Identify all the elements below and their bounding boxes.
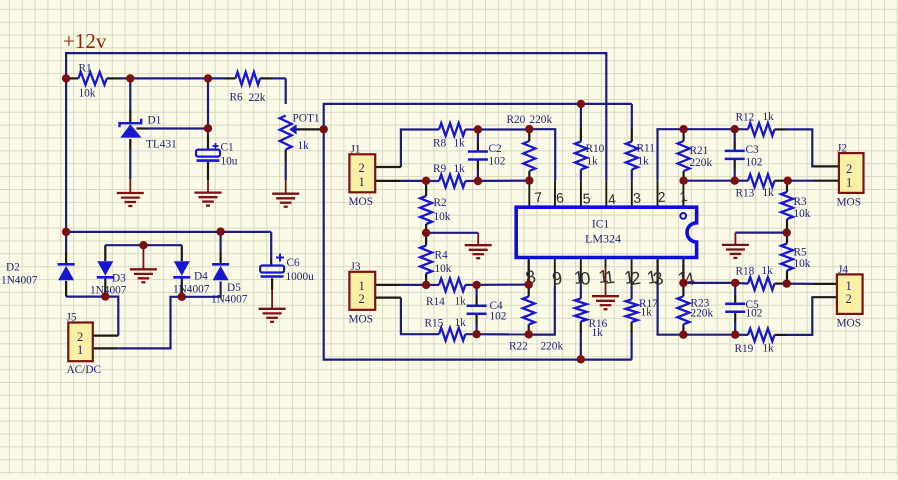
resistor R14 — [426, 279, 466, 309]
wire node B to J5 pin1 — [93, 297, 182, 349]
wire C6 to ground — [271, 278, 273, 309]
svg-text:220k: 220k — [691, 308, 714, 320]
svg-text:5: 5 — [582, 190, 591, 206]
svg-text:1k: 1k — [638, 156, 650, 168]
capacitor C1 — [196, 142, 238, 168]
wire D1 to ground — [129, 139, 131, 193]
resistor R1 — [78, 63, 106, 100]
svg-text:R3: R3 — [794, 196, 808, 208]
wire R17 branch — [630, 286, 632, 360]
wire y=335 lower right block — [683, 334, 748, 336]
svg-text:10k: 10k — [79, 88, 96, 100]
capacitor C6 — [260, 254, 314, 284]
wire R10 branch — [580, 104, 582, 180]
wire y=129 right block — [684, 128, 748, 130]
svg-text:C3: C3 — [746, 144, 760, 156]
wire R2-R4 node to ground branch — [426, 233, 478, 245]
wire pin9 down-left — [529, 286, 555, 335]
wire R5 stubs — [786, 233, 788, 284]
svg-text:10k: 10k — [435, 263, 452, 275]
wire C1 to ground — [207, 162, 209, 193]
resistor R19 — [735, 329, 775, 356]
svg-text:1k: 1k — [587, 156, 599, 168]
svg-text:220k: 220k — [541, 341, 564, 353]
svg-text:D5: D5 — [227, 282, 241, 294]
wire pin11 ground stem — [605, 267, 607, 296]
svg-text:2: 2 — [359, 292, 365, 306]
svg-text:10k: 10k — [434, 211, 451, 223]
svg-text:10k: 10k — [794, 208, 811, 220]
IC1 bottom pin numbers 8 9 10 11 12 13 14 — [524, 266, 696, 290]
wire R4 stubs — [425, 233, 427, 285]
wire R12 to J2 pin2 — [775, 129, 839, 166]
svg-text:C6: C6 — [287, 257, 301, 269]
svg-text:R21: R21 — [690, 145, 709, 157]
svg-text:1k: 1k — [454, 138, 466, 150]
wire D3 bottom stub — [104, 278, 106, 297]
svg-text:1k: 1k — [763, 187, 775, 199]
wire pin13 down-right — [658, 259, 684, 335]
svg-text:C2: C2 — [489, 143, 503, 155]
wire +12v top rail — [66, 53, 606, 232]
svg-text:1N4007: 1N4007 — [211, 294, 248, 306]
resistor R21 — [678, 141, 713, 171]
wire lower-left rail y=232 — [66, 232, 271, 266]
wire C3 stubs — [734, 129, 736, 181]
wire y=283 lower right block — [683, 283, 837, 284]
svg-text:6: 6 — [555, 189, 564, 206]
IC1 pin stubs top (pins 7-1) — [529, 180, 683, 206]
svg-text:MOS: MOS — [837, 197, 862, 209]
resistor R23 — [677, 296, 713, 324]
ground R3-R5 node — [722, 245, 749, 258]
wire R21 stubs — [682, 129, 684, 181]
resistor R15 — [425, 317, 467, 341]
wire C5 stubs — [734, 283, 736, 335]
svg-text:MOS: MOS — [349, 196, 374, 208]
svg-text:22k: 22k — [249, 92, 266, 104]
svg-text:+12v: +12v — [63, 29, 107, 53]
wire bridge mid ground stem — [142, 245, 144, 269]
connector J2 MOS — [837, 143, 864, 209]
wire D5 top stub — [220, 232, 222, 265]
wire C2 stubs — [477, 130, 479, 182]
wire R11 branch — [631, 104, 633, 180]
svg-text:R18: R18 — [736, 266, 755, 278]
svg-text:1k: 1k — [763, 111, 775, 123]
svg-text:1: 1 — [846, 279, 852, 293]
svg-text:102: 102 — [746, 157, 763, 169]
svg-text:R9: R9 — [433, 163, 447, 175]
power label +12v — [63, 29, 107, 53]
wire R9 row y=181 — [426, 180, 529, 183]
svg-text:MOS: MOS — [837, 318, 862, 330]
op-amp IC1 LM324 — [516, 207, 696, 257]
wire R16 branch — [580, 286, 582, 360]
resistor R8 — [433, 123, 465, 149]
svg-text:R12: R12 — [736, 112, 755, 124]
connector J4 MOS — [837, 264, 863, 330]
resistor R20 — [507, 114, 553, 171]
connector J5 AC/DC — [67, 312, 102, 377]
capacitor C3 — [725, 144, 763, 169]
wire D1 branch — [129, 78, 131, 122]
svg-text:R10: R10 — [586, 143, 605, 155]
svg-text:J4: J4 — [838, 264, 848, 276]
diode D5 — [211, 264, 248, 305]
wire left rail down to D2 — [65, 232, 67, 264]
wire R2 stubs — [425, 181, 427, 233]
svg-text:TL431: TL431 — [146, 139, 177, 151]
diode D3 — [90, 261, 127, 296]
wire C1 branch — [207, 78, 209, 149]
ground R2-R4 node — [465, 245, 492, 258]
svg-text:2: 2 — [657, 189, 666, 205]
svg-text:220k: 220k — [690, 157, 713, 169]
resistor R3 — [781, 192, 811, 220]
svg-text:1: 1 — [359, 279, 365, 293]
wire y=181 right block — [684, 180, 839, 182]
svg-text:R1: R1 — [79, 63, 92, 75]
wire R20 stubs — [528, 129, 530, 180]
svg-text:R8: R8 — [433, 138, 447, 150]
resistor R18 — [736, 265, 775, 290]
svg-text:1: 1 — [359, 175, 365, 189]
svg-text:J5: J5 — [67, 312, 77, 324]
svg-text:LM324: LM324 — [585, 232, 621, 246]
resistor R13 — [736, 174, 775, 199]
resistor R17 — [626, 298, 659, 322]
IC1 pin stubs bottom (pins 8-14) — [529, 259, 684, 286]
wire wiper node up to pin3 line y=104 — [324, 104, 632, 129]
svg-text:R4: R4 — [435, 250, 449, 262]
wire R8 right to pin6 line — [465, 129, 555, 180]
svg-text:102: 102 — [489, 156, 506, 168]
resistor R16 — [575, 299, 608, 340]
ground bridge mid — [130, 269, 157, 282]
resistor R11 — [626, 142, 655, 170]
wire R3 stubs — [786, 181, 788, 233]
svg-text:MOS: MOS — [349, 314, 374, 326]
wire R15 row to pin9 — [465, 333, 528, 335]
svg-text:R11: R11 — [637, 143, 655, 155]
ground C1 — [195, 193, 222, 206]
svg-text:10u: 10u — [221, 156, 238, 168]
svg-text:10k: 10k — [794, 258, 811, 270]
potentiometer POT1 — [280, 113, 320, 153]
wire R3-R5 node ground branch — [735, 233, 787, 245]
wire J1 pin2 to R8 row — [375, 130, 439, 168]
svg-text:1k: 1k — [592, 327, 604, 339]
resistor R9 — [433, 163, 465, 187]
resistor R12 — [736, 111, 775, 136]
svg-text:R13: R13 — [736, 188, 755, 200]
wire POT1 wiper to node — [296, 128, 324, 130]
wire R19 to J4 pin2 — [775, 297, 837, 335]
capacitor C2 — [468, 143, 506, 168]
diode D2 — [1, 262, 75, 287]
wire R6 to POT1 — [285, 78, 287, 104]
svg-text:1k: 1k — [455, 317, 467, 329]
svg-text:IC1: IC1 — [592, 219, 610, 231]
connector J3 MOS — [349, 261, 376, 326]
svg-text:1k: 1k — [762, 265, 774, 277]
svg-text:D2: D2 — [6, 262, 20, 274]
svg-text:D4: D4 — [194, 271, 208, 283]
svg-text:J3: J3 — [351, 261, 361, 273]
svg-text:D3: D3 — [112, 273, 126, 285]
svg-text:R22: R22 — [509, 341, 528, 353]
svg-text:AC/DC: AC/DC — [67, 364, 102, 376]
svg-text:1N4007: 1N4007 — [1, 275, 38, 287]
wire C4 stubs — [476, 285, 478, 334]
ground IC pin11 — [592, 296, 619, 309]
svg-text:C1: C1 — [221, 142, 234, 154]
svg-text:D1: D1 — [148, 115, 162, 127]
svg-text:POT1: POT1 — [293, 113, 320, 125]
wire pin14 down to R23 — [682, 259, 684, 283]
svg-text:1000u: 1000u — [286, 271, 315, 283]
diode D1 TL431 — [120, 115, 177, 151]
ground POT1 — [272, 194, 299, 207]
capacitor C4 — [467, 300, 507, 323]
svg-text:R14: R14 — [426, 296, 445, 308]
ground C6 — [259, 309, 286, 322]
resistor R4 — [420, 246, 452, 276]
wire D4 bottom stub — [181, 278, 183, 297]
svg-text:J2: J2 — [837, 143, 847, 155]
svg-text:R20: R20 — [507, 114, 526, 126]
resistor R6 — [230, 72, 266, 104]
svg-text:1: 1 — [77, 343, 83, 357]
svg-text:R19: R19 — [735, 343, 754, 355]
svg-text:1k: 1k — [298, 140, 310, 152]
svg-text:1N4007: 1N4007 — [173, 284, 210, 296]
svg-text:R15: R15 — [425, 318, 444, 330]
wire R14 row y=285 — [426, 284, 529, 286]
svg-text:2: 2 — [359, 161, 365, 175]
capacitor C5 — [725, 299, 763, 320]
svg-text:R6: R6 — [230, 92, 244, 104]
wire R23 stubs — [682, 283, 684, 335]
diode D4 — [173, 261, 210, 295]
svg-text:1: 1 — [846, 176, 852, 190]
svg-text:2: 2 — [846, 292, 852, 306]
wire D3-D4 top link y=245 — [105, 245, 182, 261]
wire J3 pin2 to R15 row — [375, 298, 439, 335]
svg-text:102: 102 — [746, 308, 763, 320]
resistor R5 — [781, 244, 811, 271]
wire J3 pin1 to node — [375, 284, 426, 286]
svg-text:1k: 1k — [454, 163, 466, 175]
wire POT1 to ground — [285, 150, 287, 194]
svg-text:0: 0 — [579, 268, 591, 289]
svg-text:R2: R2 — [434, 197, 448, 209]
wire D1 ref to C1 node — [137, 127, 209, 129]
resistor R2 — [420, 196, 451, 224]
wire wiper node down to bottom rail — [324, 129, 632, 359]
wire J1 pin1 to node — [375, 180, 426, 182]
svg-text:102: 102 — [490, 311, 507, 323]
resistor R10 — [575, 142, 605, 170]
svg-text:2: 2 — [77, 330, 83, 344]
svg-text:1k: 1k — [455, 296, 467, 308]
wire D2 bottom to node A — [66, 281, 105, 297]
ground TL431 — [117, 193, 144, 206]
wire node A to J5 pin2 — [93, 297, 119, 336]
wire R1 row y=78 rail — [66, 77, 286, 79]
svg-text:220k: 220k — [530, 114, 553, 126]
svg-text:2: 2 — [846, 162, 852, 176]
connector J1 MOS — [349, 144, 376, 209]
IC1 top pin numbers 7 6 5 4 3 2 1 — [534, 188, 689, 208]
svg-text:1k: 1k — [641, 307, 653, 319]
svg-text:3: 3 — [633, 189, 642, 206]
svg-text:J1: J1 — [351, 144, 361, 156]
wire pin2 of IC up to right block — [658, 129, 684, 180]
svg-text:R5: R5 — [794, 247, 808, 259]
svg-text:1k: 1k — [763, 343, 775, 355]
resistor R22 — [509, 297, 563, 353]
wire node B to D5 bottom — [182, 282, 221, 297]
wire R22 stubs — [528, 260, 530, 334]
